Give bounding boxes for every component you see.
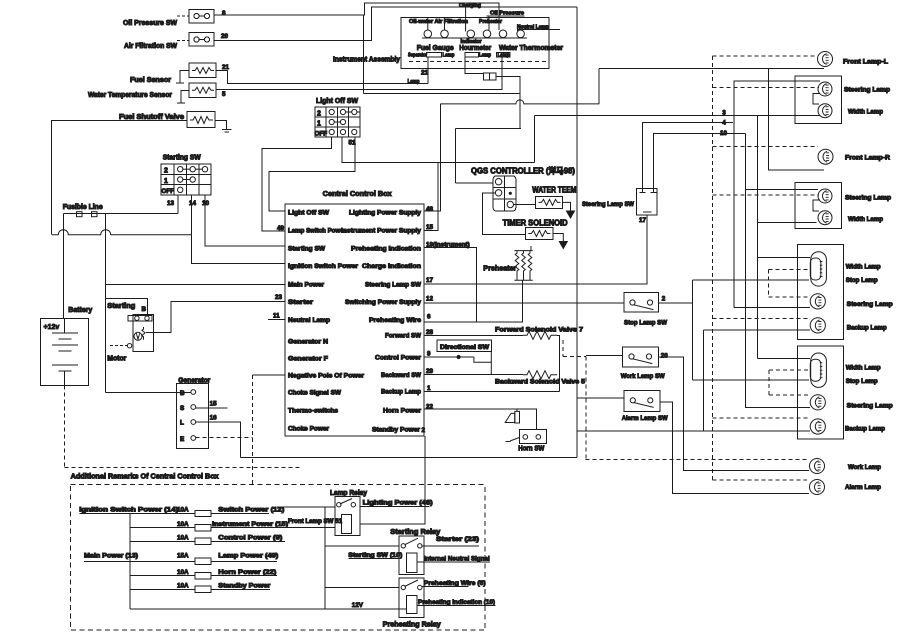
svg-text:17: 17: [426, 277, 434, 284]
wire: steering lamp R top feed: [746, 188, 818, 190]
wire 28: forward SW to forward solenoid valve: [424, 334, 523, 336]
wire: starting relay feed: [325, 545, 399, 547]
light off SW position labels: [315, 111, 328, 138]
wire: vertical from top line: [362, 15, 364, 94]
wire 5: water temp sensor to water thermometer: [216, 57, 502, 90]
wire: steering link L: [813, 94, 820, 105]
svg-text:OFF: OFF: [162, 188, 175, 195]
wire 4: steering SW to steering lamp L: [643, 123, 733, 189]
wire: preheating relay feed: [325, 587, 399, 589]
svg-text:14: 14: [189, 200, 197, 207]
svg-text:Starting: Starting: [107, 303, 135, 310]
svg-text:Front Lamp SW 51: Front Lamp SW 51: [288, 518, 342, 525]
wire: preheating wire 6: [422, 586, 468, 588]
wire 15: generator S: [196, 407, 228, 409]
central control box U1: [285, 204, 424, 436]
wire: battery positive to fusible line: [62, 214, 64, 319]
lamp relay K1: [335, 497, 360, 536]
wire: 12V feed: [130, 608, 407, 610]
wire: light off SW col2 to width lamp circuit: [342, 137, 534, 162]
svg-text:48: 48: [426, 206, 434, 213]
svg-text:Starting SW: Starting SW: [288, 246, 325, 253]
wire 48: lighting power supply: [424, 104, 440, 211]
wire 2: standby power to backup lamps: [577, 430, 810, 432]
svg-text:Instrument Power Supply: Instrument Power Supply: [341, 228, 422, 235]
svg-text:S: S: [180, 405, 184, 412]
svg-text:Air Filtration SW: Air Filtration SW: [124, 43, 177, 50]
wire 1: backup lamp power: [424, 390, 560, 392]
fuse F7 10A: [177, 569, 211, 579]
svg-text:Lamp: Lamp: [408, 79, 420, 85]
svg-text:Generator: Generator: [178, 378, 210, 385]
horn speaker LS1: [505, 409, 519, 423]
fusible link F2: [92, 212, 98, 217]
wire: preheating indication 19: [417, 605, 496, 607]
fusible link F1: [77, 212, 83, 217]
indicator lamp bus: [422, 37, 527, 39]
svg-text:Steering Lamp: Steering Lamp: [845, 195, 891, 202]
wire: QGS pin to timer solenoid: [483, 193, 526, 235]
svg-text:OFF: OFF: [315, 131, 328, 138]
svg-text:Ignition Switch Power: Ignition Switch Power: [288, 263, 359, 270]
svg-text:Width Lamp: Width Lamp: [846, 264, 881, 271]
wire 17: steering lamp SW to CCB: [424, 215, 647, 284]
timer solenoid R5: [525, 228, 553, 240]
svg-text:12: 12: [426, 296, 434, 303]
svg-text:Lamp Switch Power: Lamp Switch Power: [288, 228, 347, 235]
wire 14: starting SW to ignition feed: [192, 195, 285, 264]
backward solenoid valve L2: [523, 371, 557, 379]
svg-text:Thermo-switchs: Thermo-switchs: [288, 408, 339, 415]
svg-text:Light Off SW: Light Off SW: [288, 210, 329, 217]
wire 21: fuel sensor to fuel gauge: [216, 71, 428, 84]
svg-text:Lighting Power (48): Lighting Power (48): [363, 500, 433, 507]
wire: forward valve return: [557, 335, 560, 391]
svg-text:Standby Power: Standby Power: [372, 426, 421, 433]
wire: instrument power riser: [576, 7, 578, 457]
forward solenoid valve L1: [523, 331, 557, 339]
svg-text:2: 2: [164, 168, 168, 175]
wire: fuel shutoff valve to key switch feed: [52, 120, 187, 234]
svg-text:Steering Lamp SW: Steering Lamp SW: [582, 201, 634, 208]
svg-text:Alarm Lamp: Alarm Lamp: [845, 484, 881, 491]
wire 16: generator L: [196, 422, 241, 457]
svg-text:Alarm Lamp SW: Alarm Lamp SW: [622, 415, 668, 422]
wire 12: switching power supply to stop lamp SW: [424, 302, 624, 304]
steering+width lamp box R: [795, 183, 842, 229]
wire 20: air filtration SW along top: [214, 7, 577, 41]
starting SW contacts row 1: [178, 177, 196, 182]
wire 13: starting SW to fusible line: [177, 195, 179, 214]
work lamp switch SW9: [623, 347, 659, 367]
starting SW contacts row OFF: [178, 187, 183, 192]
fuse F5 10A: [177, 535, 211, 545]
svg-text:20: 20: [661, 353, 669, 360]
svg-text:Forward SW: Forward SW: [385, 333, 421, 340]
svg-text:Forward Solenoid Valve 7: Forward Solenoid Valve 7: [495, 327, 584, 334]
svg-text:15: 15: [210, 401, 218, 408]
backup lamp tail R: [810, 419, 825, 434]
ground bus wire: [241, 456, 577, 458]
wire 29: backward SW to backward solenoid valve: [424, 374, 523, 376]
indicator lamp: air filtration: [441, 18, 449, 38]
svg-text:Width Lamp: Width Lamp: [848, 109, 883, 116]
steering+width lamp box L: [795, 76, 842, 123]
svg-text:10A: 10A: [177, 507, 189, 514]
svg-text:Backward Solenoid Valve 5: Backward Solenoid Valve 5: [495, 378, 586, 385]
dashed internal lamp bus: [409, 61, 546, 63]
svg-text:WATER TEEM: WATER TEEM: [532, 186, 576, 195]
svg-text:Separator: Separator: [408, 53, 427, 59]
fuel sensor R1: [176, 63, 216, 83]
svg-text:Steering Lamp: Steering Lamp: [847, 301, 893, 308]
generator pin letters: [180, 390, 185, 443]
svg-text:Preheating Indication (19): Preheating Indication (19): [418, 599, 495, 606]
wire 19: preheating indication stub: [424, 248, 477, 323]
svg-text:Starter: Starter: [288, 299, 314, 306]
wire 8: oil pressure SW to instrument: [214, 3, 524, 30]
wire: col2 riser junction to wire 3: [455, 128, 457, 183]
preheater R6 (triple coil): [514, 246, 532, 280]
air filtration switch SW2: [177, 33, 214, 47]
svg-text:Work Lamp SW: Work Lamp SW: [621, 373, 665, 380]
svg-text:Backup Lamp: Backup Lamp: [847, 325, 887, 332]
ground arrow: timer solenoid: [553, 234, 567, 249]
wire: steering link R: [813, 200, 820, 211]
svg-text:B: B: [180, 390, 185, 397]
hourmeter unit: [465, 53, 478, 57]
fuse row 4 wire: [84, 560, 277, 562]
water teem resistor R4: [536, 196, 563, 208]
svg-text:Directional SW: Directional SW: [440, 344, 489, 351]
svg-text:Fusible Line: Fusible Line: [63, 204, 103, 211]
svg-text:3: 3: [722, 109, 726, 116]
indicator lamp: oil pressure: [483, 30, 491, 38]
svg-text:10A: 10A: [177, 569, 189, 576]
fuel shutoff valve R3: [187, 112, 215, 128]
fuse row 1 wire: [79, 512, 269, 514]
svg-text:Control Power (9): Control Power (9): [218, 535, 282, 542]
oil pressure switch SW1: [177, 10, 214, 24]
svg-text:Steering Lamp: Steering Lamp: [844, 87, 890, 94]
svg-text:12V: 12V: [352, 602, 364, 609]
steering lamp tail R: [810, 395, 825, 410]
wire: neutral lamp feed: [517, 30, 560, 32]
svg-text:Preheating Relay: Preheating Relay: [383, 621, 441, 628]
wire: light off SW col1 to CCB lamp-switch pin 49: [262, 137, 332, 231]
svg-text:4: 4: [722, 120, 726, 127]
front lamp R: [818, 149, 833, 164]
svg-text:2: 2: [422, 427, 426, 434]
ground: fuel shutoff valve return: [215, 120, 232, 132]
fuse F8 10A: [177, 583, 211, 593]
svg-text:29: 29: [426, 368, 434, 375]
wire 10: starting SW to CCB starting pin: [205, 195, 285, 246]
svg-text:Steering Lamp: Steering Lamp: [847, 403, 893, 410]
wire: starter 23: [422, 545, 479, 547]
svg-text:13: 13: [167, 200, 175, 207]
svg-text:Ignition Switch Power (14): Ignition Switch Power (14): [79, 507, 178, 514]
svg-text:L: L: [180, 420, 184, 427]
svg-text:Lamp: Lamp: [498, 53, 510, 59]
light off SW contacts row 2: [329, 109, 360, 114]
backup lamp tail L: [810, 318, 825, 333]
svg-text:+12v: +12v: [44, 324, 60, 331]
svg-text:Oil Pressure SW: Oil Pressure SW: [123, 20, 177, 27]
wire: fused feed down to main power: [105, 214, 107, 393]
wire: main power to CCB: [106, 284, 285, 286]
svg-text:Hourmeter: Hourmeter: [459, 45, 491, 52]
svg-text:16: 16: [210, 415, 218, 422]
wire: backup lamp riser: [703, 330, 810, 431]
light off SW contacts row 1: [329, 119, 346, 124]
wire: stop SW to stop filaments: [659, 280, 809, 380]
connector: hourmeter plug: [483, 73, 496, 80]
CCB right pin labels: [341, 210, 422, 434]
svg-text:Water Temperature Sensor: Water Temperature Sensor: [88, 92, 172, 99]
indicator lamp: oil-water separator: [424, 18, 432, 38]
light off switch SW4: [315, 107, 360, 137]
svg-text:Central Control Box: Central Control Box: [323, 191, 392, 198]
svg-text:Choke Signal SW: Choke Signal SW: [288, 390, 341, 397]
svg-text:49: 49: [277, 225, 285, 232]
svg-text:Horn Power: Horn Power: [383, 408, 422, 415]
svg-text:Width Lamp: Width Lamp: [846, 365, 881, 372]
steering lamp L: [818, 82, 832, 96]
svg-text:Light Off SW: Light Off SW: [316, 98, 358, 105]
svg-text:17: 17: [639, 217, 647, 224]
wire: CCB to remarks box link: [424, 436, 426, 485]
svg-text:E: E: [180, 436, 184, 443]
svg-text:Additional Remarks Of Central: Additional Remarks Of Central Control Bo…: [71, 474, 219, 481]
wire: front lamp R feed: [768, 68, 824, 170]
starting SW contacts row 2: [178, 167, 208, 172]
wire: internal neutral signal: [417, 561, 490, 563]
svg-text:Work Lamp: Work Lamp: [848, 464, 881, 471]
svg-text:Lamp: Lamp: [443, 53, 455, 59]
svg-text:Preheating Wire: Preheating Wire: [369, 317, 422, 324]
fuse row 5 wire: [130, 575, 277, 577]
wire: steering riser L: [734, 81, 820, 307]
svg-text:Indicator: Indicator: [461, 39, 482, 45]
svg-text:Backward SW: Backward SW: [381, 372, 421, 379]
svg-text:Instrument Power (15): Instrument Power (15): [212, 521, 288, 528]
wire 23: starter motor to CCB: [146, 301, 285, 332]
width/stop dual lamp L: [810, 252, 826, 286]
wire 22: horn power: [424, 409, 536, 430]
wire 3: light off SW to width lamps: [535, 115, 820, 117]
water temperature sensor R2: [177, 83, 216, 103]
svg-text:Control Power: Control Power: [375, 354, 422, 361]
svg-text:QGS CONTROLLER (洋马98): QGS CONTROLLER (洋马98): [471, 166, 575, 176]
wire: branch to fuel shutoff valve (hops over battery and main feed): [52, 230, 192, 235]
svg-text:5: 5: [222, 91, 226, 98]
svg-text:10A: 10A: [177, 583, 189, 590]
width lamp L: [818, 104, 832, 118]
alarm lamp: [810, 480, 825, 495]
light off SW contacts row OFF: [329, 129, 357, 134]
wire 9: control power to directional SW: [424, 356, 452, 358]
starting SW position labels: [162, 168, 175, 196]
svg-text:Lamp Power (49): Lamp Power (49): [218, 553, 278, 560]
wire: QGS pin to instrument bus: [456, 182, 494, 184]
wire: steering riser R: [746, 133, 810, 407]
wire: connector onward: [496, 76, 520, 128]
fuse F4 10A: [177, 521, 211, 531]
svg-text:1: 1: [317, 121, 321, 128]
svg-text:Horn SW: Horn SW: [518, 446, 544, 453]
remarks dashed box: [71, 485, 485, 631]
alarm lamp switch SW10: [624, 390, 660, 411]
wire: lighting power underline: [360, 505, 429, 507]
width/stop dual lamp R: [810, 353, 826, 387]
battery BT1: [41, 319, 89, 386]
wire: alarm lamp SW feed: [577, 397, 624, 399]
wire: QGS pin to water teem: [514, 204, 536, 206]
steering lamp R: [818, 189, 832, 203]
svg-text:Motor: Motor: [107, 356, 126, 363]
wire 51: light off SW col3 to CCB light-off pin: [269, 137, 355, 211]
svg-text:Main Power (13): Main Power (13): [84, 553, 138, 560]
svg-text:Choke Power: Choke Power: [288, 426, 330, 433]
svg-text:Generator F: Generator F: [288, 356, 328, 363]
svg-text:2: 2: [317, 111, 321, 118]
fuse feed riser: [129, 513, 131, 609]
svg-text:Charging: Charging: [459, 3, 481, 9]
fuse row 6 wire: [130, 588, 270, 590]
fuse F6 15A: [177, 553, 211, 565]
svg-text:TIMER SOLENOID: TIMER SOLENOID: [503, 219, 568, 228]
node 11: [268, 313, 285, 320]
svg-text:21: 21: [421, 70, 429, 77]
svg-text:Stop Lamp: Stop Lamp: [846, 277, 878, 284]
fusible line wire: [63, 213, 178, 215]
wire: alarm SW to alarm lamp: [660, 402, 809, 494]
svg-text:Neutral Lamp: Neutral Lamp: [288, 317, 330, 324]
fuse row 2 wire: [130, 527, 335, 529]
wire: lamp relay to CCB 48: [360, 485, 425, 525]
work lamp: [810, 459, 825, 474]
svg-text:Preheating Indication: Preheating Indication: [351, 246, 421, 253]
wire 15: instrument power supply: [424, 162, 438, 230]
svg-text:Main Power: Main Power: [288, 282, 325, 289]
width lamp R: [818, 211, 832, 225]
indicator lamp: preheat: [499, 30, 507, 38]
fuse row 3 wire: [130, 540, 285, 542]
svg-text:B: B: [142, 306, 147, 313]
svg-text:Oil-water Air Filtration: Oil-water Air Filtration: [409, 19, 468, 25]
svg-text:Oil Pressure: Oil Pressure: [490, 11, 524, 17]
svg-text:Starting SW: Starting SW: [163, 155, 201, 162]
svg-text:Preheater: Preheater: [483, 266, 516, 273]
instrument assembly box: [401, 18, 549, 69]
svg-text:11: 11: [273, 313, 280, 320]
svg-text:Negative Pole Of Power: Negative Pole Of Power: [288, 373, 365, 380]
dashed lamp feeds: [563, 56, 819, 480]
svg-text:Charge Indication: Charge Indication: [362, 263, 421, 270]
tail lamp box R: [797, 346, 843, 439]
wire 6: preheating wire to preheater: [424, 280, 522, 322]
horn switch SW6: [506, 430, 547, 444]
svg-text:8: 8: [222, 10, 226, 17]
svg-text:6: 6: [427, 314, 431, 321]
svg-text:Backup Lamp: Backup Lamp: [381, 389, 421, 396]
wire: CCB negative pole to ground bus: [253, 374, 286, 376]
svg-text:Internal Neutral Signal: Internal Neutral Signal: [424, 556, 490, 563]
starting key switch SW3: [161, 164, 211, 195]
wire: fuel gauge separator to sensor: [427, 57, 429, 84]
svg-text:Stop Lamp: Stop Lamp: [846, 378, 878, 385]
starting relay K2: [399, 536, 424, 575]
svg-text:Front Lamp-L: Front Lamp-L: [843, 59, 888, 66]
indicator lamp: charging: [466, 7, 475, 37]
steering lamp switch SW7: [637, 189, 658, 216]
svg-text:1: 1: [164, 178, 168, 185]
directional switch SW5: [452, 352, 491, 375]
starting motor M1: [110, 315, 154, 352]
tail lamp box L: [797, 245, 843, 340]
svg-text:10: 10: [720, 130, 728, 137]
CCB left pin labels: [288, 210, 365, 433]
fuel gauge unit: [426, 53, 441, 57]
steering lamp tail L: [810, 294, 825, 309]
svg-text:Lamp: Lamp: [479, 53, 491, 59]
QGS controller U2: [493, 176, 516, 211]
svg-text:Instrument Assembly: Instrument Assembly: [333, 57, 400, 64]
wire: width lamp tail feeds: [758, 257, 810, 358]
svg-text:Preheating Wire (6): Preheating Wire (6): [424, 580, 486, 587]
wire: starter battery feed: [106, 299, 148, 316]
ground arrow: water teem: [563, 202, 575, 218]
wire: work SW to work lamp: [659, 357, 809, 471]
svg-text:15A: 15A: [177, 553, 189, 560]
svg-text:Preheater: Preheater: [479, 19, 502, 25]
water thermometer unit: [497, 53, 510, 57]
wire: battery negative dashed ground: [65, 385, 301, 467]
relay feed riser: [277, 507, 335, 609]
svg-text:Fuel Gauge: Fuel Gauge: [417, 45, 454, 52]
wire 10: steering SW to steering lamp R: [653, 133, 745, 188]
svg-text:10: 10: [202, 200, 210, 207]
preheating relay K3: [399, 578, 424, 617]
svg-text:Lamp Relay: Lamp Relay: [330, 490, 367, 497]
stop lamp switch SW8: [624, 293, 659, 313]
svg-text:Generator N: Generator N: [288, 339, 328, 346]
svg-text:21: 21: [222, 64, 230, 71]
svg-text:20: 20: [221, 33, 229, 40]
svg-text:2: 2: [662, 296, 666, 303]
generator G1: [106, 384, 209, 449]
svg-text:10A: 10A: [177, 521, 189, 528]
svg-text:Starter (23): Starter (23): [436, 536, 479, 543]
svg-text:Switch Power (12): Switch Power (12): [218, 507, 284, 514]
svg-text:Steering Lamp SW: Steering Lamp SW: [365, 282, 421, 289]
dashed distribution riser: [712, 56, 714, 480]
svg-text:Stop Lamp SW: Stop Lamp SW: [624, 320, 667, 327]
svg-text:Horn Power (22): Horn Power (22): [218, 569, 276, 576]
svg-text:23: 23: [275, 294, 283, 301]
svg-text:Battery: Battery: [68, 307, 92, 314]
svg-text:Front Lamp-R: Front Lamp-R: [845, 155, 890, 162]
front lamp L: [818, 52, 833, 67]
svg-text:Switching Power Supply: Switching Power Supply: [345, 299, 422, 306]
wire: instrument bus horizontal: [363, 93, 520, 95]
wire: work lamp SW feed: [586, 355, 623, 357]
svg-text:51: 51: [349, 140, 357, 147]
svg-text:Width Lamp: Width Lamp: [848, 216, 883, 223]
indicator lamp: neutral: [517, 30, 525, 38]
svg-text:Water Thermometer: Water Thermometer: [499, 45, 563, 52]
